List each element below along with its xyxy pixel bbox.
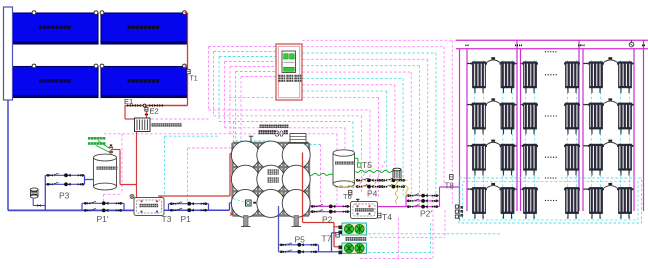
svg-text:T6: T6 bbox=[343, 192, 352, 201]
wire control loop left 4 bbox=[225, 62, 346, 184]
wire heat pump interlock cyan bbox=[369, 223, 501, 253]
wire control loop left 3 bbox=[219, 57, 353, 189]
pump P4 lower bbox=[357, 185, 405, 189]
wire tank level sensor right bbox=[309, 145, 321, 205]
wire control loop right 3 bbox=[302, 53, 436, 196]
sensor E2 drop bbox=[145, 106, 148, 119]
label control cabinet bbox=[278, 75, 285, 82]
solar collector panel 3 bbox=[13, 67, 98, 98]
heat meter assembly bbox=[455, 205, 463, 218]
wire collector cold pipe bbox=[4, 7, 13, 210]
modular water tank bbox=[231, 141, 310, 217]
wire exchanger to pump drop bbox=[111, 132, 137, 198]
sensor T5 bbox=[358, 163, 361, 167]
svg-text:P2′: P2′ bbox=[420, 209, 432, 219]
svg-text:E2: E2 bbox=[150, 107, 159, 116]
wire control loop left 2 bbox=[214, 52, 362, 194]
pump P5 upper bbox=[281, 243, 317, 247]
label tank capacity 30t bbox=[259, 130, 288, 139]
zone boundary break bbox=[541, 177, 561, 180]
radiator row 3 bbox=[467, 140, 634, 176]
wire heater control tap bbox=[233, 199, 246, 203]
wire P4 yellow right drop bbox=[406, 187, 408, 197]
wire green connector tank bbox=[309, 173, 333, 175]
wire E1 drop bbox=[125, 106, 135, 120]
pump P5 lower bbox=[281, 250, 317, 254]
radiator row 2 bbox=[467, 98, 634, 134]
wire control loop right 4 bbox=[302, 59, 428, 211]
wire diagonal control taps bbox=[359, 161, 386, 187]
wire control loop right 7 bbox=[302, 78, 403, 195]
wire vent sensor lines green bbox=[96, 141, 109, 153]
wire radiator supply header bbox=[456, 40, 648, 49]
zone control boundary bbox=[459, 178, 642, 223]
heat exchanger T3 module bbox=[134, 198, 164, 216]
pump P4 upper bbox=[357, 178, 405, 182]
safety valve group bbox=[109, 145, 112, 154]
air source heat pump 1 bbox=[339, 223, 367, 235]
sensor T7 bbox=[336, 233, 340, 238]
solar collector panel 1 bbox=[13, 13, 98, 44]
wire control loop left 1 bbox=[209, 47, 371, 199]
expansion vessel bbox=[31, 188, 39, 198]
wire P2-prime branch bbox=[406, 187, 460, 207]
pump P2 lower bbox=[312, 210, 349, 214]
pump P1 upper bbox=[171, 202, 207, 206]
wire E1 pipe run bbox=[125, 105, 188, 107]
label solar exchanger name bbox=[152, 123, 155, 126]
pump P1 lower bbox=[171, 208, 207, 212]
wire hot water to tank bbox=[158, 154, 233, 198]
label open tank line2 bbox=[268, 177, 273, 182]
wire control loop left 6 bbox=[236, 72, 277, 141]
wire P3 branch bbox=[45, 175, 93, 210]
label vent valve green bbox=[88, 137, 91, 140]
wire collector hot pipe bbox=[185, 13, 188, 106]
wire P2 pipes bbox=[309, 206, 351, 211]
wire P4 yellow lower bbox=[335, 186, 408, 188]
wire control loop right 5 bbox=[302, 66, 420, 207]
radiator risers bbox=[460, 40, 644, 220]
svg-text:P4: P4 bbox=[367, 189, 378, 199]
radiator row 1 bbox=[467, 57, 634, 93]
svg-text:T7: T7 bbox=[322, 234, 332, 244]
svg-text:P5: P5 bbox=[295, 235, 306, 245]
pump P1-prime upper bbox=[85, 201, 122, 205]
wire sensor branch to T3 exchanger bbox=[165, 136, 220, 197]
heat exchanger E2 (solar) bbox=[135, 118, 151, 132]
wire control loop right 2 bbox=[302, 47, 444, 185]
header break dots bbox=[545, 51, 557, 52]
wire control loop right 8 bbox=[302, 85, 395, 170]
pump P2-prime 1 bbox=[408, 194, 438, 198]
wire green connector supply bbox=[355, 158, 394, 172]
pump P3 lower bbox=[47, 182, 83, 186]
tank legs bbox=[241, 216, 301, 227]
wire control loop right 10 bbox=[229, 97, 379, 198]
wire canister yellow drop bbox=[395, 180, 397, 205]
solar collector panel 4 bbox=[101, 67, 187, 98]
tank vent hatch bbox=[288, 134, 308, 144]
control cabinet bbox=[276, 44, 302, 100]
air source heat pump 2 bbox=[339, 243, 367, 254]
svg-text:P1′: P1′ bbox=[97, 214, 109, 224]
wire P1-prime branch bbox=[82, 203, 124, 210]
roof vent bbox=[629, 40, 634, 47]
wire sensor branch to pump P1-prime bbox=[104, 134, 231, 203]
svg-text:T8: T8 bbox=[445, 182, 455, 191]
tank overflow stub bbox=[249, 136, 253, 143]
svg-text:P3: P3 bbox=[59, 191, 70, 201]
valves on E1 line bbox=[127, 104, 163, 107]
svg-text:P1: P1 bbox=[181, 214, 192, 224]
svg-text:30: 30 bbox=[275, 130, 284, 139]
electric heater in tank bbox=[246, 200, 257, 206]
wire control loop right 6 bbox=[302, 72, 411, 201]
wire control loop right 9 bbox=[302, 91, 387, 171]
collector header connections bbox=[32, 11, 186, 68]
sensor T1 bbox=[187, 70, 190, 74]
wire control loop left 5 bbox=[230, 67, 337, 206]
label heat pump bbox=[346, 237, 350, 241]
pump P3 upper bbox=[47, 173, 83, 177]
wire expansion drop bbox=[33, 198, 45, 207]
wire main solar return bbox=[8, 209, 134, 211]
strainer canister bbox=[393, 168, 401, 179]
svg-text:T4: T4 bbox=[382, 212, 392, 222]
wire control loop right 1 bbox=[302, 40, 452, 204]
wire control loop left 7 bbox=[241, 77, 276, 149]
wire sensor branch to E2 exchanger bbox=[147, 118, 209, 120]
label safety valve green bbox=[88, 142, 91, 145]
svg-text:T5: T5 bbox=[362, 160, 372, 170]
make-up tank bbox=[333, 150, 355, 187]
riser isolation valves bbox=[466, 44, 646, 46]
pump P2-prime 3 bbox=[408, 205, 438, 209]
wire P4 yellow upper bbox=[350, 179, 408, 181]
svg-text:T1: T1 bbox=[190, 76, 198, 83]
wire heating supply out bbox=[378, 206, 407, 208]
wire P1 branch bbox=[164, 203, 234, 210]
wire tank hot supply riser bbox=[303, 153, 339, 247]
label open tank line1 bbox=[268, 169, 273, 174]
radiator row 4 bbox=[467, 183, 634, 219]
label tank line1 bbox=[260, 125, 263, 128]
pump P1-prime lower bbox=[85, 209, 122, 213]
wire sensor into tank top bbox=[233, 122, 235, 144]
svg-text:E1: E1 bbox=[124, 97, 133, 106]
pump P2 upper bbox=[312, 205, 349, 209]
tank drain valve bbox=[230, 213, 233, 216]
indicator lamp bbox=[130, 195, 134, 199]
sensor T6 bbox=[349, 191, 352, 195]
sensor T4 bbox=[378, 213, 381, 218]
wire radiator sensor drops bbox=[474, 60, 629, 221]
svg-text:T3: T3 bbox=[162, 214, 172, 224]
wire heat pump interlock pink bbox=[360, 196, 445, 259]
sensor T8 bbox=[450, 175, 454, 180]
solar buffer tank bbox=[94, 154, 118, 190]
heat exchanger heating module bbox=[351, 199, 378, 218]
wire P5 suction bbox=[279, 206, 339, 252]
wire sensor branch to pump P1 bbox=[188, 148, 242, 203]
pump P2-prime 2 bbox=[408, 199, 438, 203]
zone control boundary inner bbox=[463, 182, 639, 221]
solar collector panel 2 bbox=[101, 13, 187, 44]
svg-text:P2: P2 bbox=[322, 215, 333, 225]
